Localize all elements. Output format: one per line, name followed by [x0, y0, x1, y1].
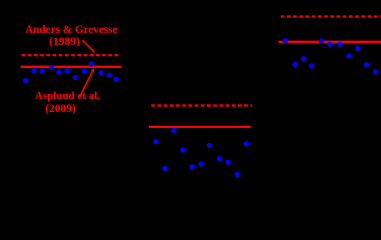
- data point: [319, 38, 324, 43]
- solid line AGSS09 group 2: [149, 126, 251, 128]
- data point: [64, 68, 69, 73]
- data point: [82, 68, 87, 73]
- data point: [107, 73, 112, 78]
- data point: [73, 75, 78, 80]
- dashed line AG89 group 1: [22, 54, 121, 56]
- label Asplund et al. line 2: [43, 104, 78, 116]
- data point: [235, 172, 240, 177]
- arrow from Anders label to dashed line: [82, 40, 95, 53]
- data point: [198, 161, 203, 166]
- data point: [98, 70, 103, 75]
- dashed line AG89 group 3: [281, 15, 381, 17]
- data point: [373, 69, 378, 74]
- data point: [244, 141, 249, 146]
- data point: [283, 38, 288, 43]
- solid line AGSS09 group 3: [279, 41, 381, 43]
- data point: [56, 69, 61, 74]
- data point: [162, 166, 167, 171]
- data point: [364, 62, 369, 67]
- data point: [337, 42, 342, 47]
- data point: [171, 128, 176, 133]
- data points group 2: [153, 128, 249, 177]
- data point: [327, 42, 332, 47]
- data point: [49, 65, 54, 70]
- label Anders & Grevesse line 2: [46, 37, 84, 49]
- data point: [114, 77, 119, 82]
- data point: [301, 56, 306, 61]
- data point: [189, 164, 194, 169]
- label Asplund et al. line 1: [35, 91, 99, 102]
- data point: [23, 78, 28, 83]
- arrow from Asplund label to solid line: [80, 68, 94, 97]
- dashed line AG89 group 2: [151, 104, 252, 106]
- data point: [225, 160, 230, 165]
- data point: [153, 139, 158, 144]
- data point: [207, 143, 212, 148]
- label Anders & Grevesse line 1: [24, 25, 119, 36]
- data point: [309, 63, 314, 68]
- solid line AGSS09 group 1: [21, 66, 122, 68]
- data point: [39, 69, 44, 74]
- data point: [346, 53, 351, 58]
- data points group 3: [283, 38, 379, 75]
- data point: [217, 156, 222, 161]
- data points group 1: [23, 61, 119, 83]
- data point: [292, 62, 297, 67]
- data point: [31, 68, 36, 73]
- data point: [89, 61, 94, 66]
- data point: [180, 147, 185, 152]
- data point: [355, 46, 360, 51]
